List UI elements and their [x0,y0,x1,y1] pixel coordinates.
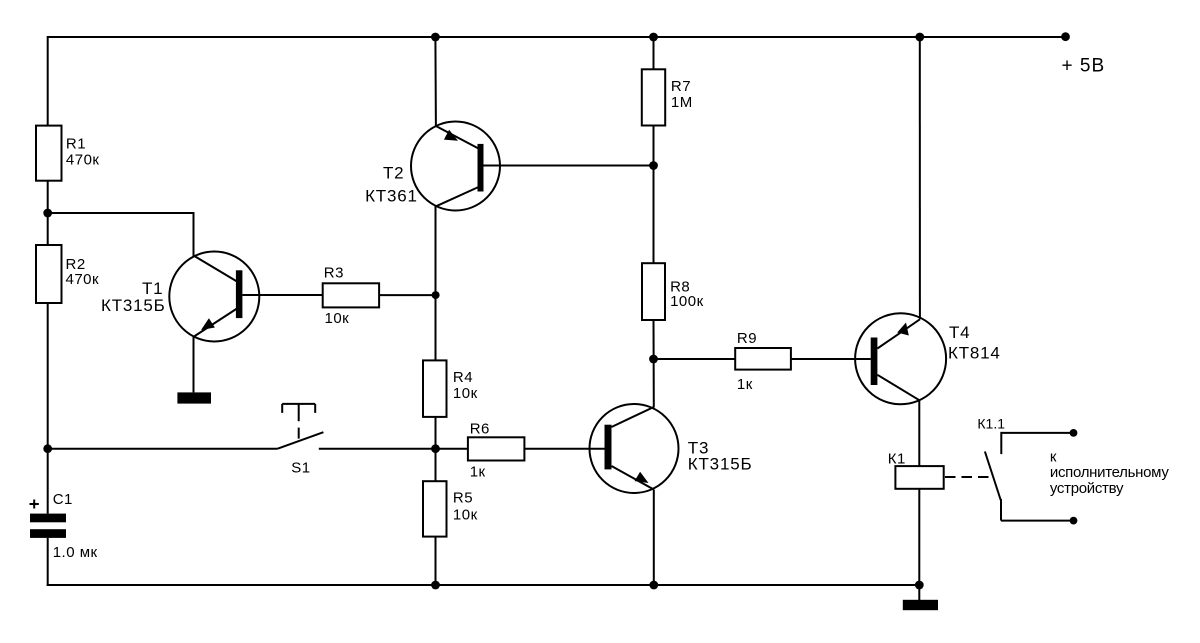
ground right [903,600,938,610]
node bottom rail col2 [431,581,440,590]
svg-text:R9: R9 [737,330,757,347]
transistor T3 КТ315Б [590,404,753,493]
svg-text:к: к [1050,448,1057,465]
resistor R3 [323,283,379,307]
svg-text:КТ361: КТ361 [365,186,418,205]
wire R5 to bottom rail [435,537,437,585]
wire left column bottom [47,538,49,586]
node R9 junction [649,355,658,364]
wire T4 collector to relay [918,400,920,466]
wire col4 top to T4 emitter [919,37,921,319]
wire R3 to column2 [379,294,436,296]
svg-text:100к: 100к [670,293,704,310]
wire node to R6 [436,448,468,450]
wire col3 top [653,37,655,69]
resistor R7 [642,69,665,125]
switch S1 [278,404,436,477]
svg-text:+ 5В: + 5В [1062,56,1106,77]
svg-text:КТ315Б: КТ315Б [101,296,166,315]
node terminal +5V dot [1061,32,1070,41]
svg-text:1к: 1к [737,376,753,393]
wire R6 to T3 base [524,448,604,450]
resistor R6 [468,437,525,460]
wire R9 to T4 base [791,358,871,360]
wire T3 emitter to bottom rail [653,490,655,586]
svg-text:R4: R4 [453,369,473,386]
node R1-R2 junction [43,209,52,218]
wire R4 to R5 [435,417,437,481]
svg-text:1к: 1к [470,464,486,481]
node top rail col3 [649,33,658,42]
wire col2 T2 collector down [435,206,437,360]
svg-text:S1: S1 [291,460,310,477]
svg-text:R1: R1 [66,135,86,152]
svg-text:470к: 470к [66,271,100,288]
wire R9 junction to box [654,358,736,360]
svg-text:R5: R5 [453,490,473,507]
transistor T4 КТ814 [855,313,1001,404]
label actuator text [1050,448,1169,497]
wire T1 emitter to ground [193,337,195,393]
wire top rail +5V [48,36,1066,38]
svg-text:10к: 10к [453,385,478,402]
transistor T1 КТ315Б [101,252,323,342]
resistor R8 [642,263,665,320]
relay contact K1.1 [977,416,1077,525]
node bottom rail col3 [649,581,658,590]
wire left column middle [47,303,49,514]
resistor R1 [36,126,62,181]
svg-text:10к: 10к [453,507,478,524]
resistor R4 [423,360,447,417]
ground T1 [177,392,211,403]
wire junction to T1 collector [48,213,194,256]
svg-text:Т2: Т2 [383,164,404,183]
transistor T2 КТ361 [365,122,653,211]
svg-text:C1: C1 [53,491,73,508]
node left S1 junction [43,444,52,453]
node top rail col2 [431,33,440,42]
node R3 junction [432,291,440,299]
svg-text:1М: 1М [671,94,693,111]
resistor R2 [36,245,62,303]
wire relay to bottom junction [918,489,920,585]
node T2 base junction [649,161,658,170]
wire R1 to R2 [47,181,49,245]
svg-text:КТ315Б: КТ315Б [688,454,753,473]
svg-text:Т4: Т4 [949,323,970,342]
wire R7 to R8 [653,126,655,264]
wire ground stub [918,585,920,600]
svg-text:КТ814: КТ814 [948,343,1001,362]
wire bottom rail [47,584,920,586]
wire dashed relay link [945,476,990,478]
svg-text:470к: 470к [66,151,100,168]
relay coil K1 [895,466,943,489]
svg-text:устройству: устройству [1050,480,1124,497]
node col2 S1 row junction [431,444,440,453]
wire R8 to T3 collector [653,320,655,408]
svg-text:R3: R3 [324,264,344,281]
capacitor C1 [30,491,98,561]
svg-text:R6: R6 [470,421,490,438]
resistor R9 [735,348,791,370]
node top rail col4 [915,33,924,42]
wire col2 top to T2 [434,37,437,127]
svg-text:10к: 10к [325,310,350,327]
svg-text:R7: R7 [671,78,691,95]
resistor R5 [423,481,447,536]
svg-text:К1: К1 [888,451,906,468]
node bottom rail right end [915,581,924,590]
svg-text:1.0 мк: 1.0 мк [53,544,98,561]
svg-text:К1.1: К1.1 [977,416,1005,432]
wire left junction to S1 [48,448,278,450]
wire left column top [47,36,49,127]
svg-text:исполнительному: исполнительному [1050,464,1169,481]
